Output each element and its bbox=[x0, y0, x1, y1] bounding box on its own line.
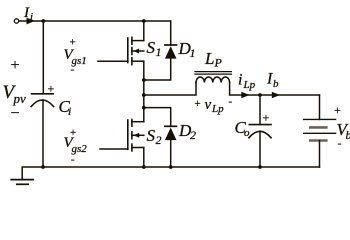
label Lp bbox=[204, 49, 223, 70]
label S2 bbox=[147, 126, 162, 147]
svg-text:−: − bbox=[11, 105, 20, 122]
label - of Vb bbox=[338, 136, 342, 150]
label + of Ci bbox=[48, 82, 55, 96]
svg-text:b: b bbox=[273, 78, 279, 90]
svg-text:+: + bbox=[334, 103, 341, 117]
svg-text:+: + bbox=[263, 111, 270, 125]
label Ib bbox=[266, 71, 279, 91]
current arrow I_i bbox=[27, 18, 35, 25]
label - of Vpv bbox=[11, 105, 20, 122]
svg-text:-: - bbox=[71, 154, 75, 166]
svg-text:I: I bbox=[266, 71, 273, 88]
svg-text:S: S bbox=[147, 126, 156, 145]
svg-text:v: v bbox=[205, 97, 212, 113]
svg-text:Lp: Lp bbox=[211, 103, 224, 115]
current arrow Ib bbox=[272, 92, 280, 98]
label Vgs1 bbox=[64, 47, 87, 67]
svg-text:o: o bbox=[244, 127, 250, 139]
node junction inductor branch bbox=[142, 93, 146, 97]
label Co bbox=[235, 118, 251, 139]
svg-text:1: 1 bbox=[156, 45, 162, 59]
transistor S1 bbox=[128, 21, 144, 65]
wire midpoint vertical bbox=[143, 61, 145, 121]
current arrow iLp bbox=[241, 92, 249, 98]
wire gate lead S1 bbox=[98, 60, 128, 62]
label - of vLp bbox=[229, 96, 233, 108]
node junction Co bottom bbox=[258, 165, 262, 169]
wire midpoint to inductor bbox=[144, 83, 196, 96]
capacitor Co bbox=[249, 125, 271, 138]
label + of Vpv bbox=[11, 57, 20, 74]
svg-text:b: b bbox=[346, 128, 350, 142]
svg-text:pv: pv bbox=[13, 91, 27, 106]
label + of vLp bbox=[195, 98, 201, 110]
battery Vb bbox=[304, 119, 336, 140]
label Vgs2 bbox=[64, 135, 88, 155]
ground bbox=[11, 180, 33, 185]
label + of Vgs2 bbox=[70, 127, 76, 139]
node junction S1 drain on top rail bbox=[142, 19, 146, 23]
node junction D1 branch bbox=[142, 78, 146, 82]
svg-text:Lp: Lp bbox=[243, 79, 256, 91]
label + of Vb bbox=[334, 103, 341, 117]
node junction D2 branch bbox=[142, 106, 146, 110]
label Vb bbox=[337, 120, 350, 142]
wire D2 top branch bbox=[144, 108, 171, 127]
svg-text:i: i bbox=[68, 104, 71, 118]
wire battery top bbox=[319, 95, 321, 119]
node junction S2 source on rail bbox=[142, 165, 146, 169]
svg-text:-: - bbox=[338, 136, 342, 150]
label Ci bbox=[59, 97, 72, 118]
svg-text:I: I bbox=[23, 5, 30, 21]
wire gate lead S2 bbox=[100, 148, 128, 150]
label iLp bbox=[238, 72, 256, 92]
terminal input circle bbox=[14, 19, 18, 23]
svg-text:2: 2 bbox=[190, 128, 196, 142]
label - of Vgs2 bbox=[71, 154, 75, 166]
svg-text:i: i bbox=[238, 72, 242, 89]
label I_i bbox=[23, 5, 33, 23]
svg-text:1: 1 bbox=[190, 46, 196, 60]
svg-text:+: + bbox=[11, 57, 20, 74]
node junction Co branch bbox=[258, 93, 262, 97]
label S1 bbox=[147, 38, 162, 59]
wire left vertical upper bbox=[42, 21, 44, 94]
label vLp bbox=[205, 97, 225, 115]
label Vpv bbox=[3, 82, 27, 106]
svg-text:-: - bbox=[71, 64, 75, 76]
svg-text:+: + bbox=[195, 98, 201, 110]
wire bottom rail bbox=[22, 167, 319, 179]
svg-text:2: 2 bbox=[156, 133, 162, 147]
label - of Vgs1 bbox=[71, 64, 75, 76]
wire inductor to output bbox=[230, 83, 320, 96]
node junction top-left bbox=[41, 19, 45, 23]
label D1 bbox=[178, 39, 196, 60]
capacitor Ci bbox=[31, 94, 53, 107]
svg-text:i: i bbox=[30, 11, 33, 23]
label + of Vgs1 bbox=[70, 37, 76, 49]
diode D1 bbox=[165, 21, 177, 59]
node junction D2 on rail bbox=[169, 165, 173, 169]
label D2 bbox=[178, 121, 196, 142]
wire Co upper bbox=[259, 95, 261, 125]
inductor Lp bbox=[195, 72, 231, 83]
wire left vertical lower bbox=[42, 100, 44, 167]
wire S2 source to rail bbox=[143, 148, 145, 168]
svg-text:P: P bbox=[214, 56, 223, 70]
wire top rail bbox=[19, 20, 171, 22]
svg-text:S: S bbox=[147, 38, 156, 57]
node junction bottom-left bbox=[41, 165, 45, 169]
wire battery bottom bbox=[319, 141, 321, 168]
diode D2 bbox=[165, 126, 177, 167]
svg-text:+: + bbox=[48, 82, 55, 96]
svg-text:L: L bbox=[204, 49, 214, 68]
label + of Co bbox=[263, 111, 270, 125]
wire D1 bottom branch bbox=[144, 59, 171, 80]
svg-text:-: - bbox=[229, 96, 233, 108]
transistor S2 bbox=[128, 120, 144, 151]
wire Co lower bbox=[259, 131, 261, 167]
